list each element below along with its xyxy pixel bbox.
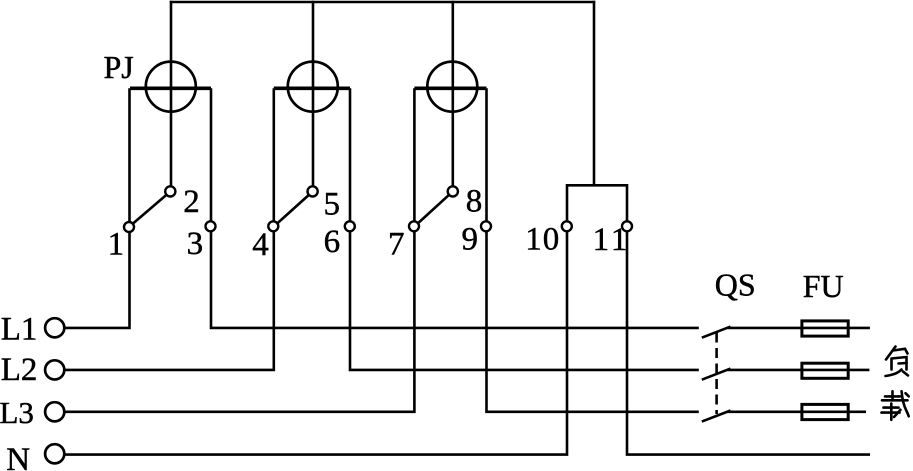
svg-text:8: 8 xyxy=(466,183,483,219)
terminal 7 xyxy=(409,221,419,231)
switch QS blade pole 1 xyxy=(702,327,731,338)
terminal 6 xyxy=(345,221,355,231)
wire right bracket of meter 2 down to terminal 6 xyxy=(349,88,352,226)
svg-text:FU: FU xyxy=(803,268,844,304)
svg-text:7: 7 xyxy=(388,227,405,263)
meter element U3 circle xyxy=(427,62,477,112)
wire drop from bus to meter 1 voltage terminal 2 xyxy=(170,1,173,192)
wire terminal 10 down to N input xyxy=(65,227,567,455)
meter element U2 circle xyxy=(288,62,338,112)
wire left bracket of meter 2 down to terminal 4 xyxy=(272,88,275,226)
wire QS pole 2 to fuse FU2 xyxy=(727,369,869,372)
terminal L2 circle xyxy=(45,360,64,379)
load label hanzi fu (load char 1) xyxy=(886,347,909,377)
svg-text:N: N xyxy=(6,442,30,471)
svg-text:L1: L1 xyxy=(1,312,38,348)
meter element U3 current coil bar xyxy=(414,87,486,91)
meter element U1 circle xyxy=(146,62,196,112)
meter element U2 current coil bar xyxy=(274,87,350,91)
wire terminal 6 output to QS pole 2 xyxy=(350,227,699,370)
switch QS blade pole 3 xyxy=(702,411,731,422)
terminal 2 xyxy=(165,186,175,196)
terminal 3 xyxy=(206,221,216,231)
wire right bracket of meter 3 down to terminal 9 xyxy=(485,88,488,226)
wire drop from bus to meter 2 voltage terminal 5 xyxy=(312,1,315,192)
terminal 9 xyxy=(481,221,491,231)
switch blade terminal 4 to terminal 5 xyxy=(274,191,313,226)
terminal 8 xyxy=(448,186,458,196)
switch blade terminal 7 to terminal 8 xyxy=(414,191,452,226)
wire drop from bus to terminal 10/11 bracket xyxy=(593,1,596,186)
wire terminal 11 output neutral line to load xyxy=(627,227,870,455)
svg-text:2: 2 xyxy=(183,184,200,220)
wire left bracket of meter 1 down to terminal 1 xyxy=(128,88,131,226)
switch QS blade pole 2 xyxy=(702,369,731,380)
terminal 5 xyxy=(308,186,318,196)
load label hanzi zai (load char 2) xyxy=(882,391,909,420)
svg-text:11: 11 xyxy=(593,222,631,258)
terminal L1 circle xyxy=(45,318,64,337)
wire terminal 7 down to L3 input xyxy=(65,227,415,412)
svg-text:6: 6 xyxy=(324,224,341,260)
meter element U1 current coil bar xyxy=(130,87,211,91)
wire terminal 9 output to QS pole 3 xyxy=(487,227,699,412)
wire terminal 4 down to L2 input xyxy=(65,227,274,370)
terminal 10 xyxy=(562,221,572,231)
wire top voltage bus xyxy=(170,1,595,4)
terminal 11 xyxy=(622,221,632,231)
fuse FU1 body xyxy=(802,321,848,336)
svg-text:L3: L3 xyxy=(0,395,34,430)
svg-text:QS: QS xyxy=(715,267,756,303)
switch QS dashed linkage xyxy=(715,333,718,415)
wire right bracket of meter 1 down to terminal 3 xyxy=(210,88,213,226)
svg-text:1: 1 xyxy=(108,227,125,263)
wire terminal 1 down to L1 input xyxy=(65,227,130,328)
terminal 1 xyxy=(124,222,134,232)
svg-text:PJ: PJ xyxy=(104,49,134,85)
wire left bracket of meter 3 down to terminal 7 xyxy=(413,88,416,226)
svg-text:9: 9 xyxy=(462,222,479,258)
wire QS pole 1 to fuse FU1 xyxy=(727,327,870,330)
svg-text:4: 4 xyxy=(252,227,269,263)
terminal N circle xyxy=(45,444,64,463)
wire drop from bus to meter 3 voltage terminal 8 xyxy=(451,1,454,192)
terminal 4 xyxy=(268,221,278,231)
terminal L3 circle xyxy=(45,402,64,421)
fuse FU2 body xyxy=(802,363,848,378)
wire bracket over terminals 10 and 11 xyxy=(567,185,627,226)
wire QS pole 3 to fuse FU3 xyxy=(727,410,866,413)
switch blade terminal 1 to terminal 2 xyxy=(130,191,171,226)
wire terminal 3 output to QS pole 1 xyxy=(211,227,699,328)
svg-text:5: 5 xyxy=(324,186,341,222)
fuse FU3 body xyxy=(802,404,848,419)
svg-text:L2: L2 xyxy=(1,352,38,388)
svg-text:3: 3 xyxy=(187,226,204,262)
svg-text:10: 10 xyxy=(525,222,560,258)
